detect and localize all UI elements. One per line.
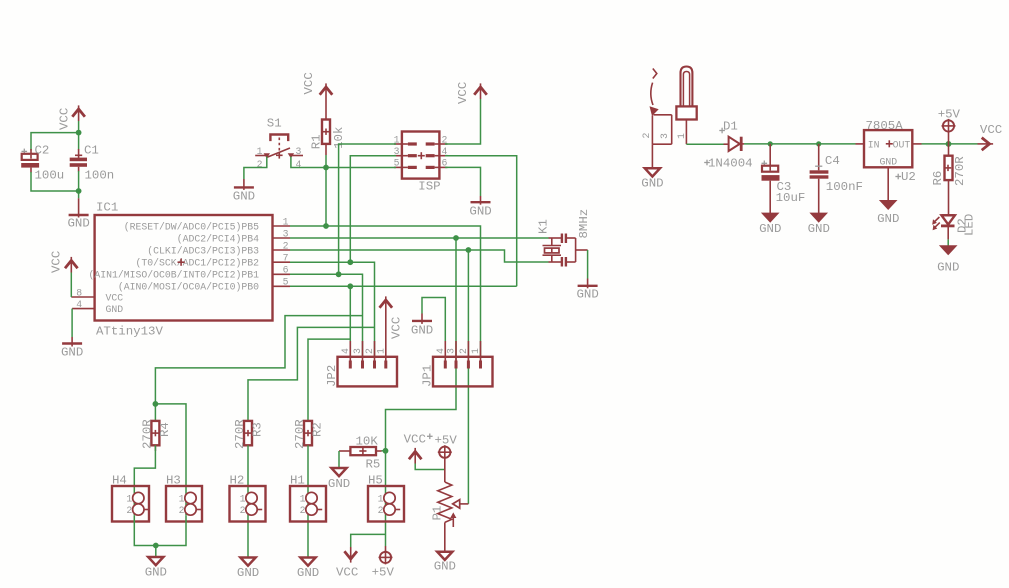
svg-text:1: 1: [375, 348, 386, 354]
wire H4/H3 pin2 to common GND: [134, 515, 186, 557]
wire ISP pin4 (MOSI) to PB0 row: [445, 156, 517, 287]
svg-text:10uF: 10uF: [776, 191, 806, 205]
svg-text:VCC: VCC: [390, 317, 404, 339]
svg-text:R5: R5: [366, 458, 381, 472]
svg-text:3: 3: [659, 133, 670, 139]
junction (rail / C3): [768, 141, 773, 146]
svg-text:10K: 10K: [356, 435, 379, 449]
svg-text:(CLKI/ADC3/PCI3)PB3: (CLKI/ADC3/PCI3)PB3: [147, 245, 259, 256]
wire C1/C2 bottom to GND: [31, 171, 79, 198]
svg-text:R6: R6: [931, 171, 945, 186]
svg-text:3: 3: [352, 348, 363, 354]
svg-text:+5V: +5V: [435, 434, 458, 448]
supply VCC (IC1 pin 8): [50, 251, 78, 273]
svg-text:3: 3: [283, 228, 289, 239]
ground GND (S1): [233, 179, 255, 204]
svg-text:(AIN0/MOSI/OC0A/PCI0)PB0: (AIN0/MOSI/OC0A/PCI0)PB0: [118, 282, 259, 293]
svg-text:VCC: VCC: [106, 292, 124, 303]
svg-text:JP1: JP1: [421, 365, 435, 387]
wire PB3 row to K1 bottom: [290, 250, 549, 262]
wire K1 pin2 to GND: [587, 250, 589, 279]
wire R5 left to GND: [338, 451, 340, 468]
ground GND (IC1 pin 4): [61, 337, 83, 360]
ground GND (H4/H3): [145, 557, 167, 580]
ground GND (J1): [641, 168, 663, 190]
supply VCC (ISP pin 2): [456, 82, 487, 104]
wire R3 to H2 pin1: [247, 445, 249, 493]
svg-text:270R: 270R: [953, 156, 967, 186]
svg-text:(AIN1/MISO/OC0B/INT0/PCI2)PB1: (AIN1/MISO/OC0B/INT0/PCI2)PB1: [89, 270, 260, 281]
wire H3 branch: [155, 404, 186, 493]
wire VCC net to C1/C2: [31, 121, 79, 151]
svg-text:1: 1: [378, 493, 384, 504]
supply +5V (P1 top): [435, 434, 458, 460]
wire S1 pin 2 to GND: [244, 157, 267, 180]
junction (PB4 / JP1 pin3): [453, 235, 459, 241]
resistor R2 270R: [293, 419, 325, 449]
potentiometer P1: [430, 457, 468, 551]
ISP pin 6: [426, 158, 448, 169]
wire VCC to P1 top: [415, 464, 445, 470]
svg-text:1: 1: [179, 493, 185, 504]
svg-text:H5: H5: [368, 474, 383, 488]
junction (PB3 / JP1 pin2): [466, 247, 472, 253]
junction (R1 / RESET row): [323, 223, 329, 229]
regulator U2 7805A: [856, 119, 922, 201]
svg-text:1: 1: [240, 493, 246, 504]
wire ISP pin5 (RESET) to S1/R1 junction: [326, 167, 396, 169]
svg-text:K1: K1: [537, 219, 551, 234]
IC1 pin 2 (PB3): [273, 240, 291, 251]
connector H3: [166, 474, 202, 522]
svg-text:IC1: IC1: [96, 201, 118, 215]
wire ISP pin2 to VCC: [445, 99, 481, 144]
wire H5 pin2 branch to VCC (down arrow): [351, 534, 386, 547]
wire power rail D1 to U2: [744, 143, 856, 145]
supply +5V (below H5): [372, 546, 395, 580]
svg-text:GND: GND: [641, 177, 663, 191]
IC1 pin 6 (PB1): [273, 265, 291, 276]
ground GND (JP1 pin 4): [411, 314, 433, 338]
wire IC1 pin 4 to GND: [71, 309, 73, 337]
IC1 pin 1 (PB5): [273, 216, 291, 227]
svg-text:2: 2: [364, 348, 375, 354]
crystal K1 8MHz (ceramic resonator): [537, 209, 592, 267]
supply VCC (right, arrow): [978, 123, 1003, 150]
ISP pin 5: [394, 158, 417, 169]
ground GND (C3): [759, 213, 781, 236]
wire PB2 row to JP2 pin2: [290, 262, 375, 357]
connector H5: [368, 474, 404, 547]
ground GND (H2): [237, 558, 259, 580]
wire PB0 row to JP2 pin4: [290, 286, 517, 357]
resistor R3 270R: [233, 419, 265, 449]
svg-text:VCC: VCC: [58, 108, 72, 130]
wire J1 pin2/3 to GND: [651, 144, 653, 168]
svg-text:1: 1: [283, 216, 289, 227]
header JP1: [421, 341, 493, 387]
svg-text:100nF: 100nF: [826, 180, 863, 194]
ground GND (C4): [808, 213, 830, 236]
IC U1 IC1 ATtiny13V: [71, 201, 290, 339]
wire IC1 pin 8 to VCC: [70, 273, 72, 298]
svg-text:C4: C4: [825, 154, 840, 168]
diode D1 1N4004: [704, 120, 752, 171]
svg-text:6: 6: [283, 265, 289, 276]
svg-text:100n: 100n: [85, 168, 115, 182]
junction (C1 / C2 / GND): [76, 188, 82, 194]
wire down to H5 pin1: [385, 451, 387, 493]
svg-text:H4: H4: [112, 474, 127, 488]
supply VCC (JP2 pin 1): [380, 296, 404, 368]
ground GND (R5): [328, 468, 350, 491]
svg-text:IN: IN: [868, 140, 880, 151]
svg-text:1: 1: [300, 493, 306, 504]
svg-text:1: 1: [676, 133, 687, 139]
ground GND (U2): [877, 201, 899, 226]
svg-text:4: 4: [435, 348, 446, 354]
wire ISP pin3 (SCK) to PB2 row: [350, 156, 396, 263]
junction (VCC / C1 / C2): [76, 130, 82, 136]
svg-text:2: 2: [641, 133, 652, 139]
svg-text:8MHz: 8MHz: [577, 209, 591, 239]
supply VCC (P1 top): [404, 433, 433, 464]
switch S1: [255, 117, 303, 170]
header JP2: [325, 341, 397, 387]
svg-text:1N4004: 1N4004: [708, 157, 753, 171]
svg-text:VCC: VCC: [50, 251, 64, 273]
svg-text:GND: GND: [577, 288, 599, 302]
wire D2 to GND: [947, 239, 949, 246]
supply VCC (down, bottom): [336, 547, 358, 580]
svg-text:100u: 100u: [35, 168, 65, 182]
svg-text:OUT: OUT: [893, 140, 911, 151]
svg-text:GND: GND: [469, 205, 491, 219]
svg-text:GND: GND: [877, 212, 899, 226]
svg-text:5: 5: [283, 277, 289, 288]
svg-text:7805A: 7805A: [866, 119, 904, 133]
wire JP1 pin2 net down to P1 wiper: [467, 250, 469, 504]
svg-text:270R: 270R: [140, 419, 154, 449]
connector H2: [230, 474, 266, 558]
svg-text:VCC: VCC: [980, 123, 1002, 137]
wire PB5/RESET row to JP1 pin1: [290, 226, 481, 357]
svg-text:4: 4: [340, 348, 351, 354]
LED D2: [932, 214, 977, 240]
header ISP: [394, 132, 448, 194]
junction (OUT / +5V / R6): [946, 141, 952, 147]
wire JP1 pin4 to GND: [422, 298, 445, 342]
svg-text:JP2: JP2: [325, 365, 339, 387]
ISP pin 4: [426, 146, 448, 157]
svg-text:2: 2: [126, 505, 132, 516]
svg-text:GND: GND: [68, 217, 90, 231]
connector H1: [290, 474, 326, 558]
ground GND (K1): [577, 279, 599, 302]
ground GND (ISP pin 6): [469, 196, 491, 219]
svg-text:1: 1: [126, 493, 132, 504]
svg-text:D1: D1: [723, 120, 738, 134]
svg-text:GND: GND: [880, 157, 898, 168]
svg-text:2: 2: [240, 505, 246, 516]
svg-text:H1: H1: [290, 474, 305, 488]
svg-text:R1: R1: [310, 134, 324, 149]
capacitor C2 100u: [21, 143, 64, 182]
wire R5 right to H5 net: [382, 450, 386, 452]
supply VCC (top-left, C1/C2 rail): [58, 105, 85, 130]
svg-text:GND: GND: [434, 560, 456, 574]
wire J1 pin1 to D1 anode: [686, 143, 723, 145]
svg-text:VCC: VCC: [404, 433, 426, 447]
IC1 pin 4 (GND): [72, 299, 95, 310]
ground GND (D2): [937, 246, 959, 275]
svg-text:ATtiny13V: ATtiny13V: [96, 325, 163, 339]
svg-text:8: 8: [76, 287, 82, 298]
svg-text:P1: P1: [430, 506, 444, 521]
wire S1 pin 4 to R1 junction: [291, 157, 326, 168]
svg-text:1: 1: [257, 146, 263, 157]
wire R2 branch (PB0 net): [308, 339, 350, 421]
svg-text:(T0/SCK/ADC1/PCI2)PB2: (T0/SCK/ADC1/PCI2)PB2: [136, 258, 260, 269]
svg-text:U2: U2: [901, 170, 916, 184]
svg-text:C1: C1: [84, 143, 99, 157]
svg-text:(ADC2/PCI4)PB4: (ADC2/PCI4)PB4: [177, 233, 259, 244]
svg-text:7: 7: [283, 253, 289, 264]
ISP pin 2: [426, 134, 448, 145]
IC1 pin 3 (PB4): [273, 228, 291, 239]
wire ISP pin1 (MISO) to PB1 row: [339, 144, 396, 274]
junction (H4/H3 GND): [153, 543, 159, 549]
wire U2 OUT to +5V / VCC: [922, 143, 978, 145]
svg-text:R3: R3: [251, 422, 265, 437]
svg-text:H2: H2: [230, 474, 245, 488]
svg-text:VCC: VCC: [456, 82, 470, 104]
connector J1 (DC power jack): [641, 67, 697, 145]
wire R2 to H1 pin1: [307, 445, 309, 493]
IC1 pin 8 (VCC): [71, 287, 94, 298]
supply +5V (U2 out): [938, 108, 961, 144]
resistor R5 10K (horizontal): [339, 435, 382, 472]
wire R4 to H4 pin1: [134, 445, 155, 493]
junction (PB2 / SCK vertical): [347, 259, 353, 265]
junction (rail / C4): [816, 141, 821, 146]
supply VCC (R1): [302, 72, 332, 99]
svg-text:R2: R2: [311, 422, 325, 437]
capacitor C1 100n: [70, 143, 115, 182]
svg-text:GND: GND: [937, 261, 959, 275]
ground GND (H1): [297, 558, 319, 580]
wire R4 branch (PB1 net): [155, 316, 362, 421]
capacitor C3 10uF: [762, 144, 806, 214]
resistor R1 10k: [310, 99, 346, 155]
capacitor C4 100nF: [810, 144, 863, 214]
junction (PB0 / JP2 pin4): [347, 283, 353, 289]
wire ISP pin6 to GND: [445, 167, 481, 196]
svg-text:3: 3: [446, 348, 457, 354]
svg-text:GND: GND: [61, 346, 83, 360]
wire R3 branch (PB2 net): [248, 327, 375, 421]
svg-text:VCC: VCC: [302, 72, 316, 94]
svg-text:H3: H3: [166, 474, 181, 488]
wire JP1 pin3 net down to H5/R5: [386, 238, 457, 451]
wire R1 bottom / RESET net: [325, 155, 327, 226]
svg-text:2: 2: [458, 348, 469, 354]
ground GND (P1): [434, 552, 456, 574]
svg-text:ISP: ISP: [418, 180, 440, 194]
svg-text:GND: GND: [759, 222, 781, 236]
resistor R4 270R: [140, 419, 172, 451]
svg-text:GND: GND: [145, 566, 167, 580]
resistor R6 270R: [931, 144, 967, 215]
svg-text:2: 2: [300, 505, 306, 516]
svg-text:C2: C2: [35, 143, 50, 157]
svg-text:270R: 270R: [233, 419, 247, 449]
svg-text:(RESET/DW/ADC0/PCI5)PB5: (RESET/DW/ADC0/PCI5)PB5: [124, 221, 259, 232]
svg-text:LED: LED: [963, 214, 977, 236]
svg-text:GND: GND: [237, 566, 259, 580]
svg-text:GND: GND: [328, 477, 350, 491]
svg-text:R4: R4: [158, 422, 172, 437]
svg-text:1: 1: [470, 348, 481, 354]
connector H4: [112, 474, 149, 522]
IC1 pin 5 (PB0): [273, 277, 291, 288]
svg-text:GND: GND: [233, 190, 255, 204]
svg-text:4: 4: [76, 299, 82, 310]
svg-text:2: 2: [378, 505, 384, 516]
svg-text:VCC: VCC: [336, 566, 358, 580]
junction (S1/R1/ISP pin5): [323, 165, 329, 171]
svg-text:270R: 270R: [293, 419, 307, 449]
junction (R4 / H3 branch): [153, 401, 159, 407]
junction (R5 / JP1pin3 net / H5): [383, 448, 389, 454]
wire PB4 row to K1 top and JP1 pin3: [290, 237, 549, 239]
IC1 pin 7 (PB2): [273, 253, 291, 264]
svg-text:+5V: +5V: [372, 566, 395, 580]
svg-text:S1: S1: [267, 117, 282, 131]
junction (PB1 / MISO vertical): [336, 271, 342, 277]
ISP pin 1: [394, 134, 417, 145]
svg-text:2: 2: [179, 505, 185, 516]
wire PB1 row to JP2 pin3: [290, 274, 363, 357]
svg-text:2: 2: [283, 240, 289, 251]
svg-text:3: 3: [296, 146, 302, 157]
ground GND (below C1/C2): [68, 198, 90, 230]
svg-text:GND: GND: [106, 304, 124, 315]
svg-text:GND: GND: [808, 222, 830, 236]
ISP pin 3: [394, 146, 417, 157]
svg-text:GND: GND: [411, 324, 433, 338]
svg-text:GND: GND: [297, 566, 319, 580]
